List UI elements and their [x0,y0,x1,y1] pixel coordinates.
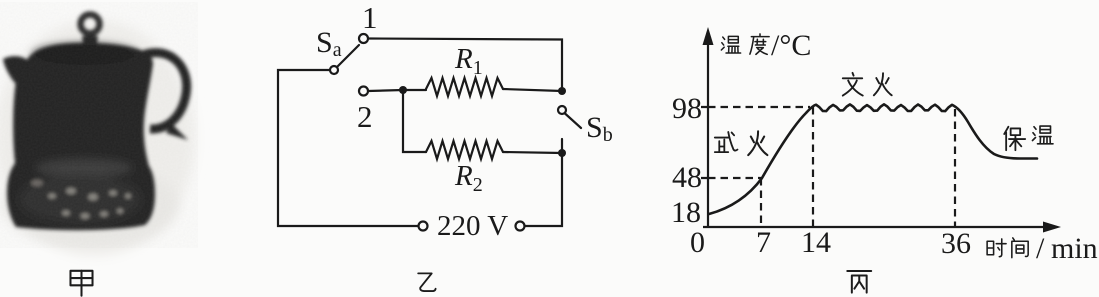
svg-text:Sb: Sb [586,111,613,146]
svg-text:R1: R1 [454,43,483,79]
svg-text:98: 98 [672,92,702,125]
svg-text:220 V: 220 V [437,210,508,242]
svg-text:7: 7 [756,226,771,259]
svg-text:R2: R2 [454,160,483,196]
svg-text:0: 0 [690,226,705,259]
svg-text:min: min [1051,232,1098,265]
svg-text:14: 14 [801,226,831,259]
svg-text:18: 18 [671,196,701,229]
svg-text:Sa: Sa [316,26,342,61]
svg-text:/°C: /°C [771,29,811,62]
svg-text:2: 2 [357,99,373,134]
svg-text:36: 36 [941,227,971,260]
svg-text:/: / [1036,232,1045,265]
svg-text:1: 1 [362,0,378,35]
svg-text:48: 48 [672,161,702,194]
